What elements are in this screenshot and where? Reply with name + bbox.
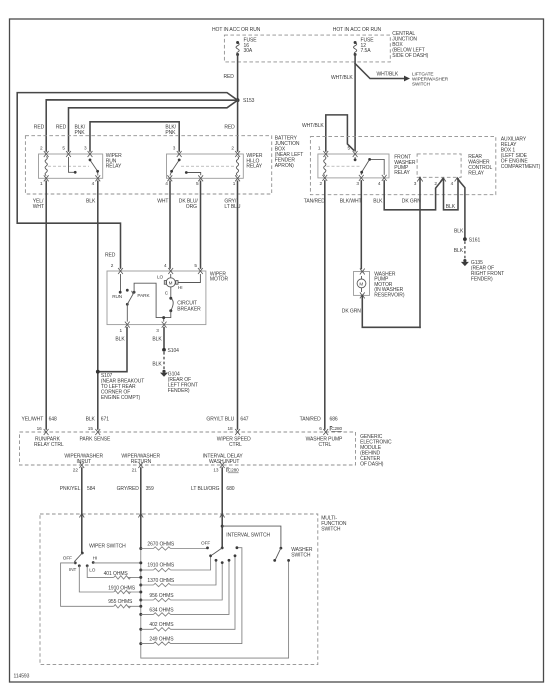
wire BLK/WHT front relay pin3 to washer motor: [360, 181, 362, 269]
wire BLK motor pin3 to S104: [163, 328, 165, 350]
svg-text:WHT: WHT: [33, 204, 44, 210]
wire LT BLU/ORG 680 GEM pin13 to interval switch: [221, 468, 223, 514]
wire wiper switch LO through resistor 401 OHMS: [87, 566, 141, 579]
run relay pin5 stub and contact dot: [69, 157, 75, 172]
svg-text:WHT/BLK: WHT/BLK: [377, 72, 399, 78]
svg-text:BLK: BLK: [86, 199, 96, 205]
run relay switch arm: [90, 160, 98, 176]
wire YEL/WHT run relay pin1 to GEM pin16: [45, 181, 47, 429]
svg-text:18: 18: [228, 426, 234, 431]
motor pin 4: [168, 268, 173, 274]
interval switch: [201, 514, 270, 564]
run relay pin 1: [44, 175, 49, 181]
svg-text:RELAY CTRL: RELAY CTRL: [34, 442, 64, 448]
svg-text:BLK: BLK: [454, 228, 464, 234]
motor armature M symbol: [157, 274, 182, 295]
front relay pin 2: [322, 175, 327, 181]
svg-text:WHT: WHT: [157, 199, 168, 205]
run relay pin 3: [88, 151, 93, 157]
svg-text:PARK: PARK: [137, 293, 150, 298]
svg-text:SIDE OF DASH): SIDE OF DASH): [392, 53, 428, 59]
svg-text:MOTOR: MOTOR: [210, 277, 229, 283]
wire circuit breaker to node and motor pin3: [164, 311, 171, 322]
wire armature C to circuit breaker: [170, 287, 172, 298]
front relay actuation dashed: [327, 165, 362, 167]
svg-text:OF DASH): OF DASH): [360, 461, 384, 467]
svg-text:359: 359: [146, 486, 154, 492]
front relay coil: [324, 157, 326, 176]
ground G104: [160, 370, 198, 395]
svg-text:WHT/BLK: WHT/BLK: [331, 75, 353, 81]
wire DK GRN rear relay pin3 down: [419, 178, 421, 328]
rear relay pin 4: [455, 178, 461, 182]
svg-text:COMPARTMENT): COMPARTMENT): [501, 164, 541, 170]
svg-text:680: 680: [226, 486, 234, 492]
svg-text:BLK: BLK: [454, 248, 464, 254]
svg-text:YEL/WHT: YEL/WHT: [22, 417, 44, 423]
splice S161: [463, 237, 467, 241]
svg-text:HI: HI: [178, 285, 183, 290]
svg-text:21: 21: [132, 468, 138, 473]
wire wiper switch HI to bus: [93, 562, 141, 564]
resistor 2670 OHMS to interval OFF: [141, 541, 207, 550]
hi-lo relay pin 2: [235, 151, 240, 157]
arrow into MFS pin13 wire: [220, 514, 225, 518]
hi-lo relay pin 5: [198, 175, 203, 181]
svg-text:INT: INT: [69, 567, 77, 572]
bus junction dots: [139, 547, 142, 550]
multi-function switch box (dashed): [40, 514, 347, 665]
ground G135: [461, 259, 504, 283]
svg-text:RED: RED: [56, 125, 67, 131]
wire BLK run relay pin4 to GEM pin15: [97, 181, 99, 429]
svg-text:BLK: BLK: [373, 199, 383, 205]
run relay coil: [45, 157, 47, 176]
svg-text:APRON): APRON): [275, 163, 294, 169]
svg-text:401 OHMS: 401 OHMS: [104, 571, 129, 577]
wire S153 to run relay pin 2: [46, 100, 237, 151]
washer switch: [273, 547, 313, 562]
motor pin 2: [118, 268, 123, 274]
svg-text:15: 15: [88, 426, 94, 431]
svg-text:648: 648: [49, 417, 57, 423]
hi-lo relay actuation dashed: [181, 165, 236, 167]
svg-text:BLK: BLK: [115, 336, 125, 342]
svg-text:C280: C280: [228, 468, 239, 473]
svg-text:S104: S104: [168, 348, 180, 354]
svg-text:OFF: OFF: [201, 541, 210, 546]
svg-text:22: 22: [73, 468, 79, 473]
svg-text:PARK SENSE: PARK SENSE: [80, 437, 112, 443]
svg-text:BLK: BLK: [446, 204, 456, 210]
front relay pin 1: [323, 151, 328, 157]
svg-text:DK GRN: DK GRN: [402, 199, 421, 205]
wire GRY/LT BLU hi-lo pin1 to GEM pin18: [237, 181, 239, 429]
motor pin 3: [162, 322, 167, 328]
svg-text:INTERVAL SWITCH: INTERVAL SWITCH: [226, 533, 270, 539]
svg-text:647: 647: [240, 417, 248, 423]
front washer pump relay box: [318, 154, 416, 178]
wire DK BLU/ORG hi-lo pin5 to motor pin5: [200, 181, 202, 268]
junction node motor pin3: [162, 316, 165, 319]
svg-text:RELAY: RELAY: [106, 164, 122, 170]
svg-text:HOT IN ACC OR RUN: HOT IN ACC OR RUN: [212, 27, 261, 33]
GEM pin 18 wiper speed ctrl: [235, 429, 240, 435]
svg-text:1910 OHMS: 1910 OHMS: [147, 563, 175, 569]
circuit breaker: [169, 297, 201, 313]
wire GRY/RED 359 GEM pin21 to resistor bus: [140, 468, 142, 514]
wire PNK/YEL 584 GEM pin22 to wiper switch: [81, 468, 83, 514]
central junction box (dashed fuse box): [224, 31, 428, 62]
svg-text:TAN/RED: TAN/RED: [304, 199, 325, 205]
wire motor pin5 to armature HI: [178, 274, 200, 283]
hi-lo relay pin 4: [167, 175, 172, 181]
svg-text:CTRL: CTRL: [319, 442, 332, 448]
wire S153 to hi-lo relay pin 2: [237, 100, 239, 151]
svg-text:HI: HI: [93, 555, 98, 560]
resistor 956 OHMS to interval c3: [141, 564, 222, 602]
svg-text:SWITCH: SWITCH: [412, 82, 430, 87]
svg-text:S153: S153: [243, 98, 255, 104]
svg-text:1370 OHMS: 1370 OHMS: [147, 578, 175, 584]
svg-text:OFF: OFF: [63, 556, 72, 561]
GEM pin 15 park sense: [95, 429, 100, 435]
hi-lo relay pin5 stub and contact dot: [188, 173, 201, 176]
resistor 249 OHMS to interval c6: [141, 548, 242, 646]
svg-text:RED: RED: [224, 125, 235, 131]
svg-text:PNK/YEL: PNK/YEL: [60, 486, 81, 492]
front relay pin 5: [353, 151, 358, 157]
svg-text:634 OHMS: 634 OHMS: [149, 607, 174, 613]
front relay pin 3: [359, 175, 364, 181]
svg-text:686: 686: [330, 417, 338, 423]
svg-text:RED: RED: [34, 125, 45, 131]
wire BLK S161 to G135 (dashed): [464, 241, 466, 258]
svg-text:BLK/WHT: BLK/WHT: [340, 199, 362, 205]
wire BLK motor pin1 to S107: [98, 328, 127, 372]
relay K2 wiper hi-lo relay box: [167, 153, 263, 178]
svg-text:M: M: [169, 280, 173, 285]
svg-text:RUN: RUN: [112, 294, 122, 299]
wire wiper switch OFF through resistor 955 OHMS: [61, 563, 141, 608]
svg-text:S161: S161: [469, 237, 481, 243]
front relay pin5 stub contact dot: [354, 157, 356, 159]
svg-text:LT BLU/ORG: LT BLU/ORG: [191, 486, 220, 492]
wire TAN/RED front relay pin2 to GEM pin6: [324, 181, 326, 429]
svg-text:BLK: BLK: [152, 336, 162, 342]
svg-text:C280: C280: [331, 426, 342, 431]
rear relay pin 2: [440, 178, 446, 182]
svg-text:BREAKER: BREAKER: [177, 306, 201, 312]
splice S153: [236, 98, 240, 102]
svg-text:WHT/BLK: WHT/BLK: [302, 123, 324, 129]
svg-text:249 OHMS: 249 OHMS: [149, 637, 174, 643]
svg-text:671: 671: [101, 417, 109, 423]
wire S153 left harness upper (to wiper motor RED): [17, 93, 237, 268]
wire BLK rear relay pin4 to S161: [457, 179, 465, 239]
svg-text:RELAY: RELAY: [394, 170, 410, 176]
svg-text:RED: RED: [105, 253, 116, 259]
run relay pin 4: [95, 175, 100, 181]
svg-text:402 OHMS: 402 OHMS: [149, 622, 174, 628]
wire S153 to run relay pin 5: [69, 100, 238, 151]
battery junction box (dashed): [25, 136, 303, 194]
run relay pin 2: [44, 151, 49, 157]
svg-text:HOT IN ACC OR RUN: HOT IN ACC OR RUN: [333, 27, 382, 33]
splice S107: [96, 370, 100, 374]
svg-text:ENGINE COMPT): ENGINE COMPT): [101, 395, 141, 401]
svg-text:16: 16: [37, 426, 43, 431]
arrow into MFS pin22 wire: [79, 514, 84, 518]
svg-text:LT BLU: LT BLU: [224, 204, 240, 210]
resistor 1370 OHMS to interval c2: [141, 562, 216, 587]
arrow into MFS pin21 wire: [138, 514, 143, 518]
hi-lo relay coil: [236, 157, 238, 176]
wire WHT hi-lo pin4 to motor pin4: [169, 181, 171, 268]
svg-text:955 OHMS: 955 OHMS: [108, 599, 133, 605]
auxiliary relay box 1 (dashed): [310, 137, 540, 195]
resistor 402 OHMS to interval c5: [141, 557, 235, 631]
wire BLK front relay pin4 to rear relay pin2: [384, 179, 443, 210]
wire motor pin4 to armature LO: [170, 274, 172, 278]
relay K1 wiper run relay box: [39, 153, 123, 178]
svg-text:LO: LO: [157, 274, 164, 279]
svg-text:CTRL: CTRL: [229, 442, 242, 448]
svg-text:SWITCH: SWITCH: [291, 552, 311, 558]
washer pump motor: [354, 269, 405, 299]
front relay pin 4: [382, 175, 387, 181]
svg-text:956 OHMS: 956 OHMS: [149, 593, 174, 599]
wire wiper switch INT through resistor 1910 OHMS: [79, 566, 141, 594]
svg-text:RELAY: RELAY: [468, 171, 484, 177]
svg-text:SWITCH: SWITCH: [321, 526, 341, 532]
motor pin 1: [125, 322, 130, 328]
svg-text:30A: 30A: [244, 48, 253, 54]
resistor bus wire (GRY/RED return): [140, 514, 142, 549]
wire WHT/BLK branch to liftgate switch: [355, 64, 404, 79]
svg-text:ORG: ORG: [186, 204, 197, 210]
wire park contact elbow to breaker node: [134, 283, 164, 317]
rear washer control relay box (dashed): [417, 154, 492, 177]
svg-text:RED: RED: [224, 74, 235, 80]
wire run-park common to motor pin1: [126, 304, 128, 321]
resistor 1910 OHMS to interval c1: [141, 557, 211, 572]
svg-text:114593: 114593: [14, 674, 30, 680]
svg-text:GRY/LT BLU: GRY/LT BLU: [206, 417, 234, 423]
wire RED fuse16 to S153: [237, 55, 239, 101]
wire WHT/BLK front relay pin1 jumper to pin5: [326, 115, 354, 151]
wire BLK S104 to G104 (dashed): [163, 352, 165, 370]
svg-text:2670 OHMS: 2670 OHMS: [147, 541, 175, 547]
wire DK GRN washer motor to rear relay pin3: [362, 296, 420, 327]
svg-text:13: 13: [213, 468, 219, 473]
svg-text:DK GRN: DK GRN: [342, 308, 361, 314]
svg-text:7.5A: 7.5A: [361, 48, 372, 54]
front relay switch arm and pin4 elbow: [361, 159, 384, 175]
svg-text:BLK: BLK: [152, 362, 162, 368]
GEM pin 16 run/park relay ctrl: [44, 429, 49, 435]
wire WHT/BLK fuse12 down: [354, 55, 356, 151]
svg-text:WIPER SWITCH: WIPER SWITCH: [89, 544, 126, 550]
svg-text:GRY/RED: GRY/RED: [117, 486, 140, 492]
wiper switch: [63, 514, 126, 573]
hi-lo relay switch arm: [170, 160, 179, 176]
svg-text:FENDER): FENDER): [471, 277, 493, 283]
generic electronic module box (dashed): [20, 432, 392, 467]
GEM pin 6 C280 washer pump ctrl: [323, 429, 328, 435]
fuse 16 30A: [236, 38, 257, 57]
wire BLK jumper rear relay pin2 to pin4: [444, 179, 459, 210]
wiper motor box: [107, 271, 228, 325]
svg-text:1910 OHMS: 1910 OHMS: [108, 585, 136, 591]
run relay pin 5: [66, 151, 71, 157]
fuse 12 7.5A: [354, 38, 375, 57]
hi-lo relay pin 3: [177, 151, 182, 157]
svg-text:TAN/RED: TAN/RED: [300, 417, 321, 423]
wire BLK/PNK run relay pin3 to hi-lo relay pin3: [90, 122, 179, 151]
rear relay pin 3: [417, 178, 423, 182]
motor pin 5: [198, 268, 203, 274]
svg-text:RELAY: RELAY: [246, 164, 262, 170]
resistor 634 OHMS to interval c4: [141, 562, 229, 617]
hi-lo relay pin 1: [235, 175, 240, 181]
run-park switch of motor: [112, 274, 150, 306]
svg-text:FENDER): FENDER): [168, 388, 190, 394]
wire interval switch feed to washer switch: [222, 526, 281, 548]
svg-text:584: 584: [87, 486, 95, 492]
svg-text:BLK: BLK: [86, 417, 96, 423]
run relay actuation dashed: [48, 165, 89, 167]
svg-text:M: M: [359, 281, 363, 286]
svg-text:LO: LO: [89, 568, 96, 573]
splice S104: [162, 348, 166, 352]
svg-text:RESERVOIR): RESERVOIR): [374, 293, 405, 299]
